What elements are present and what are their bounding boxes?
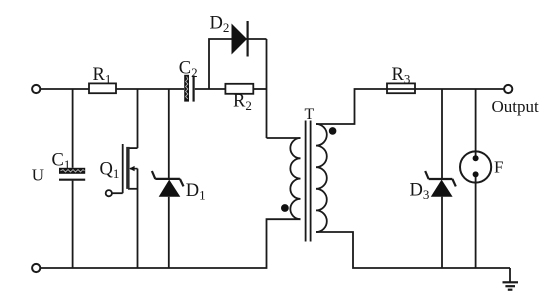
svg-text:Q1: Q1 [100, 160, 120, 182]
svg-text:D1: D1 [186, 181, 206, 203]
svg-text:Output: Output [492, 97, 540, 116]
svg-text:D2: D2 [210, 14, 230, 36]
svg-text:D3: D3 [410, 181, 430, 203]
svg-text:U: U [32, 166, 44, 185]
svg-text:F: F [494, 158, 503, 177]
svg-text:T: T [305, 106, 315, 123]
svg-text:C2: C2 [179, 59, 198, 81]
svg-text:C1: C1 [52, 151, 71, 173]
svg-text:R1: R1 [93, 65, 112, 87]
svg-text:R3: R3 [392, 65, 411, 87]
svg-text:R2: R2 [233, 92, 252, 114]
